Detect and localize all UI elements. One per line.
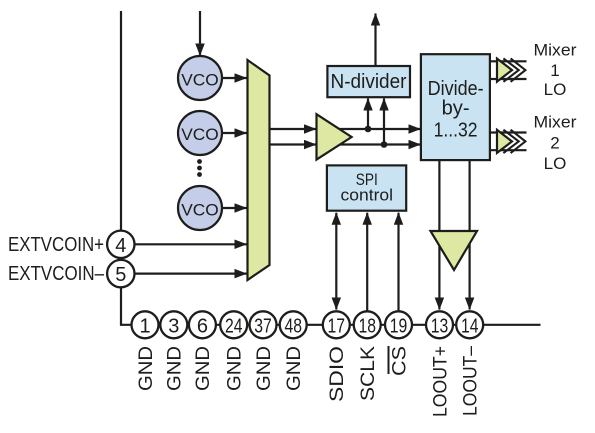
svg-text:SCLK: SCLK xyxy=(358,346,379,401)
pin 4 EXTVCOIN+ xyxy=(107,231,134,258)
svg-text:GND: GND xyxy=(136,346,157,391)
wire mux output top to buffer amp xyxy=(270,128,317,130)
pin 48 GND xyxy=(280,311,307,338)
svg-text:by-: by- xyxy=(442,98,470,120)
junction dot on bottom line xyxy=(381,141,388,148)
svg-text:GND: GND xyxy=(165,346,186,391)
label Mixer 2 LO xyxy=(534,112,577,173)
pin 13 LOOUT+ xyxy=(426,311,453,338)
wire N-divider output arrow up xyxy=(374,14,376,67)
svg-text:6: 6 xyxy=(197,315,208,337)
svg-text:control: control xyxy=(341,185,394,204)
wire mixer2 LO differential pair xyxy=(490,133,527,151)
svg-text:GND: GND xyxy=(193,346,214,391)
pin 17 SDIO xyxy=(323,311,350,338)
wire SCLK pin18 to SPI control xyxy=(366,213,368,311)
wire left vertical bus from top to bottom pin row xyxy=(121,11,541,325)
svg-text:37: 37 xyxy=(254,315,272,337)
mixer1 LO driver symbol xyxy=(497,58,525,81)
svg-text:GND: GND xyxy=(284,346,305,391)
pin 1 GND xyxy=(132,311,159,338)
svg-text:LO: LO xyxy=(544,154,567,173)
svg-text:LO: LO xyxy=(544,80,567,99)
svg-text:N-divider: N-divider xyxy=(331,71,407,93)
pin 24 GND xyxy=(220,311,247,338)
wire EXTVCOIN+ pin4 to mux xyxy=(135,243,247,245)
wire tuning input arrow into VCO1 xyxy=(199,11,201,56)
block N-divider U1 xyxy=(327,66,410,97)
mixer2 LO driver symbol xyxy=(497,130,525,153)
svg-text:14: 14 xyxy=(461,315,479,337)
svg-text:LOOUT–: LOOUT– xyxy=(461,346,482,416)
svg-text:4: 4 xyxy=(115,235,126,257)
svg-text:GND: GND xyxy=(254,346,275,391)
pin 6 GND xyxy=(189,311,216,338)
wire VCO2 to mux xyxy=(221,132,247,134)
oscillator VCO1 xyxy=(178,56,222,100)
svg-text:Mixer: Mixer xyxy=(534,41,577,60)
pin 37 GND xyxy=(250,311,277,338)
buffer amplifier triangle xyxy=(317,114,352,159)
wire divider to LOOUT+ pin13 xyxy=(438,161,440,310)
svg-text:GND: GND xyxy=(225,346,246,391)
label Mixer 1 LO xyxy=(534,41,577,99)
pin 14 LOOUT- xyxy=(456,311,483,338)
svg-text:2: 2 xyxy=(550,134,559,153)
svg-text:EXTVCOIN+: EXTVCOIN+ xyxy=(8,233,104,256)
LO output driver triangle xyxy=(431,231,478,270)
wire mixer1 LO differential pair xyxy=(490,61,527,79)
svg-text:48: 48 xyxy=(284,315,302,337)
multiplexer mux xyxy=(248,60,270,280)
oscillator VCO2 xyxy=(178,111,222,155)
svg-text:VCO: VCO xyxy=(181,71,219,90)
wire junction bottom to N-divider xyxy=(383,99,385,145)
pin 3 GND xyxy=(160,311,187,338)
block Divide-by-1...32 U2 xyxy=(421,54,490,160)
pin 18 SCLK xyxy=(354,311,381,338)
wire junction top to N-divider xyxy=(367,99,369,130)
svg-text:1...32: 1...32 xyxy=(434,119,478,141)
svg-text:24: 24 xyxy=(225,315,243,337)
svg-text:17: 17 xyxy=(328,315,346,337)
svg-text:13: 13 xyxy=(431,315,449,337)
block SPI control U3 xyxy=(327,165,406,210)
wire EXTVCOIN- pin5 to mux xyxy=(135,273,247,275)
wire SDIO pin17 bidirectional to SPI control xyxy=(335,213,337,310)
svg-text:19: 19 xyxy=(390,315,408,337)
wire divider to LOOUT- pin14 xyxy=(469,161,471,310)
svg-text:5: 5 xyxy=(115,264,126,286)
svg-text:Mixer: Mixer xyxy=(534,112,577,131)
wire buffer amp to divider bottom xyxy=(330,143,420,145)
wire CS pin19 to SPI control xyxy=(397,213,399,311)
oscillator VCO3 xyxy=(178,186,222,230)
svg-text:1: 1 xyxy=(139,315,150,337)
label CS-bar pin19 xyxy=(389,346,411,376)
svg-text:18: 18 xyxy=(358,315,376,337)
wire VCO1 to mux xyxy=(221,77,247,79)
svg-text:VCO: VCO xyxy=(181,201,219,220)
svg-text:EXTVCOIN–: EXTVCOIN– xyxy=(8,262,104,285)
pin 5 EXTVCOIN- xyxy=(107,260,134,287)
svg-text:CS: CS xyxy=(389,346,410,376)
pin 19 CS xyxy=(385,311,412,338)
svg-text:VCO: VCO xyxy=(181,125,219,144)
svg-text:LOOUT+: LOOUT+ xyxy=(430,346,451,417)
wire buffer amp to divider top xyxy=(330,128,420,130)
ellipsis dots between VCO2 and VCO3 xyxy=(197,159,202,177)
wire VCO3 to mux xyxy=(221,207,247,209)
junction dot on top line xyxy=(365,126,372,133)
svg-text:3: 3 xyxy=(168,315,179,337)
svg-text:SDIO: SDIO xyxy=(327,346,348,402)
svg-text:1: 1 xyxy=(550,61,559,80)
wire mux output bottom to buffer amp xyxy=(270,143,317,145)
svg-text:Divide-: Divide- xyxy=(428,78,484,100)
